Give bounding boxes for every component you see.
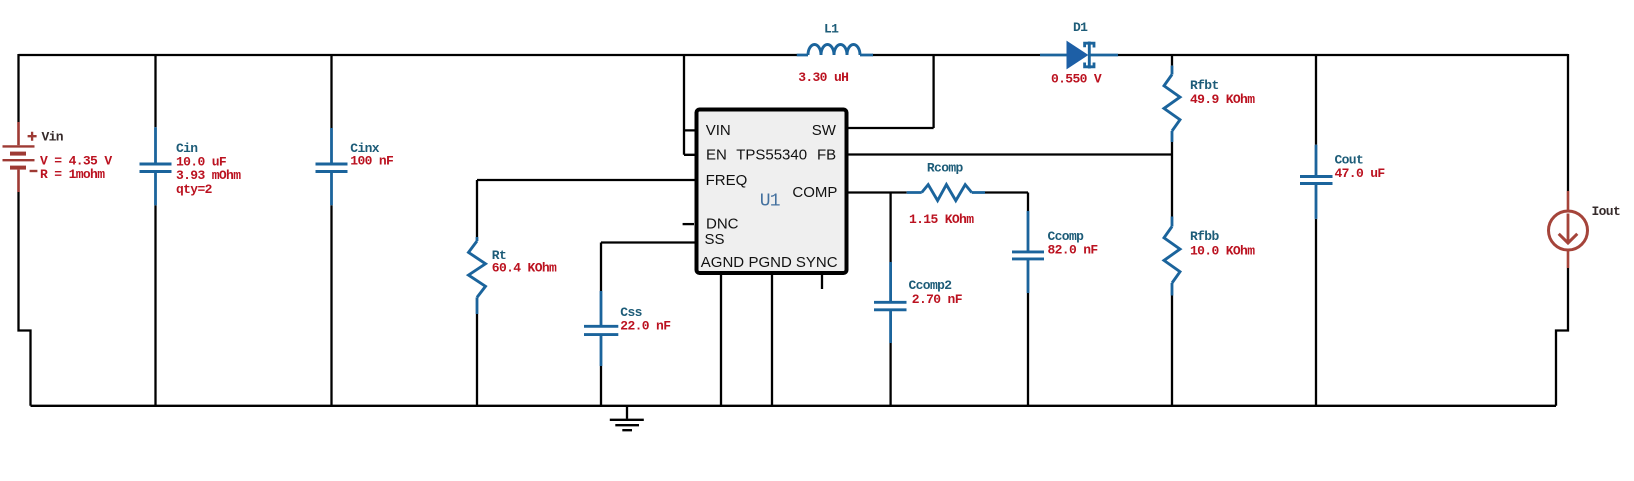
- svg-text:Rfbt: Rfbt: [1190, 78, 1219, 93]
- svg-text:DNC: DNC: [706, 215, 739, 232]
- svg-text:D1: D1: [1073, 20, 1088, 35]
- svg-text:L1: L1: [824, 21, 839, 36]
- svg-text:22.0 nF: 22.0 nF: [620, 319, 671, 334]
- svg-text:2.70 nF: 2.70 nF: [912, 292, 963, 307]
- svg-text:SS: SS: [705, 231, 725, 248]
- svg-text:COMP: COMP: [792, 184, 837, 201]
- svg-text:100 nF: 100 nF: [350, 154, 394, 169]
- svg-text:60.4 KOhm: 60.4 KOhm: [492, 261, 557, 276]
- svg-text:Ccomp2: Ccomp2: [909, 278, 953, 293]
- svg-text:1: 1: [770, 191, 781, 211]
- svg-text:1.15 KOhm: 1.15 KOhm: [909, 212, 974, 227]
- svg-text:SW: SW: [812, 122, 837, 139]
- svg-text:82.0 nF: 82.0 nF: [1048, 242, 1099, 257]
- svg-text:V = 4.35 V: V = 4.35 V: [40, 153, 112, 168]
- svg-text:EN: EN: [706, 147, 727, 164]
- svg-text:Iout: Iout: [1592, 204, 1621, 219]
- svg-text:Vin: Vin: [42, 130, 64, 145]
- svg-text:10.0 KOhm: 10.0 KOhm: [1190, 244, 1255, 259]
- svg-text:3.30 uH: 3.30 uH: [798, 70, 848, 85]
- svg-text:3.93 mOhm: 3.93 mOhm: [176, 168, 241, 183]
- svg-text:PGND: PGND: [749, 254, 793, 271]
- svg-text:qty=2: qty=2: [176, 182, 213, 197]
- svg-text:FREQ: FREQ: [706, 172, 748, 189]
- svg-text:0.550 V: 0.550 V: [1051, 71, 1102, 86]
- svg-text:TPS55340: TPS55340: [736, 147, 807, 164]
- svg-text:49.9 KOhm: 49.9 KOhm: [1190, 92, 1255, 107]
- svg-text:SYNC: SYNC: [796, 254, 838, 271]
- svg-text:Rfbb: Rfbb: [1190, 229, 1219, 244]
- svg-text:AGND: AGND: [701, 254, 745, 271]
- svg-text:VIN: VIN: [706, 122, 731, 139]
- svg-text:47.0 uF: 47.0 uF: [1335, 166, 1386, 181]
- svg-text:Rcomp: Rcomp: [927, 160, 964, 175]
- svg-text:FB: FB: [817, 147, 836, 164]
- svg-text:R = 1mohm: R = 1mohm: [40, 167, 105, 182]
